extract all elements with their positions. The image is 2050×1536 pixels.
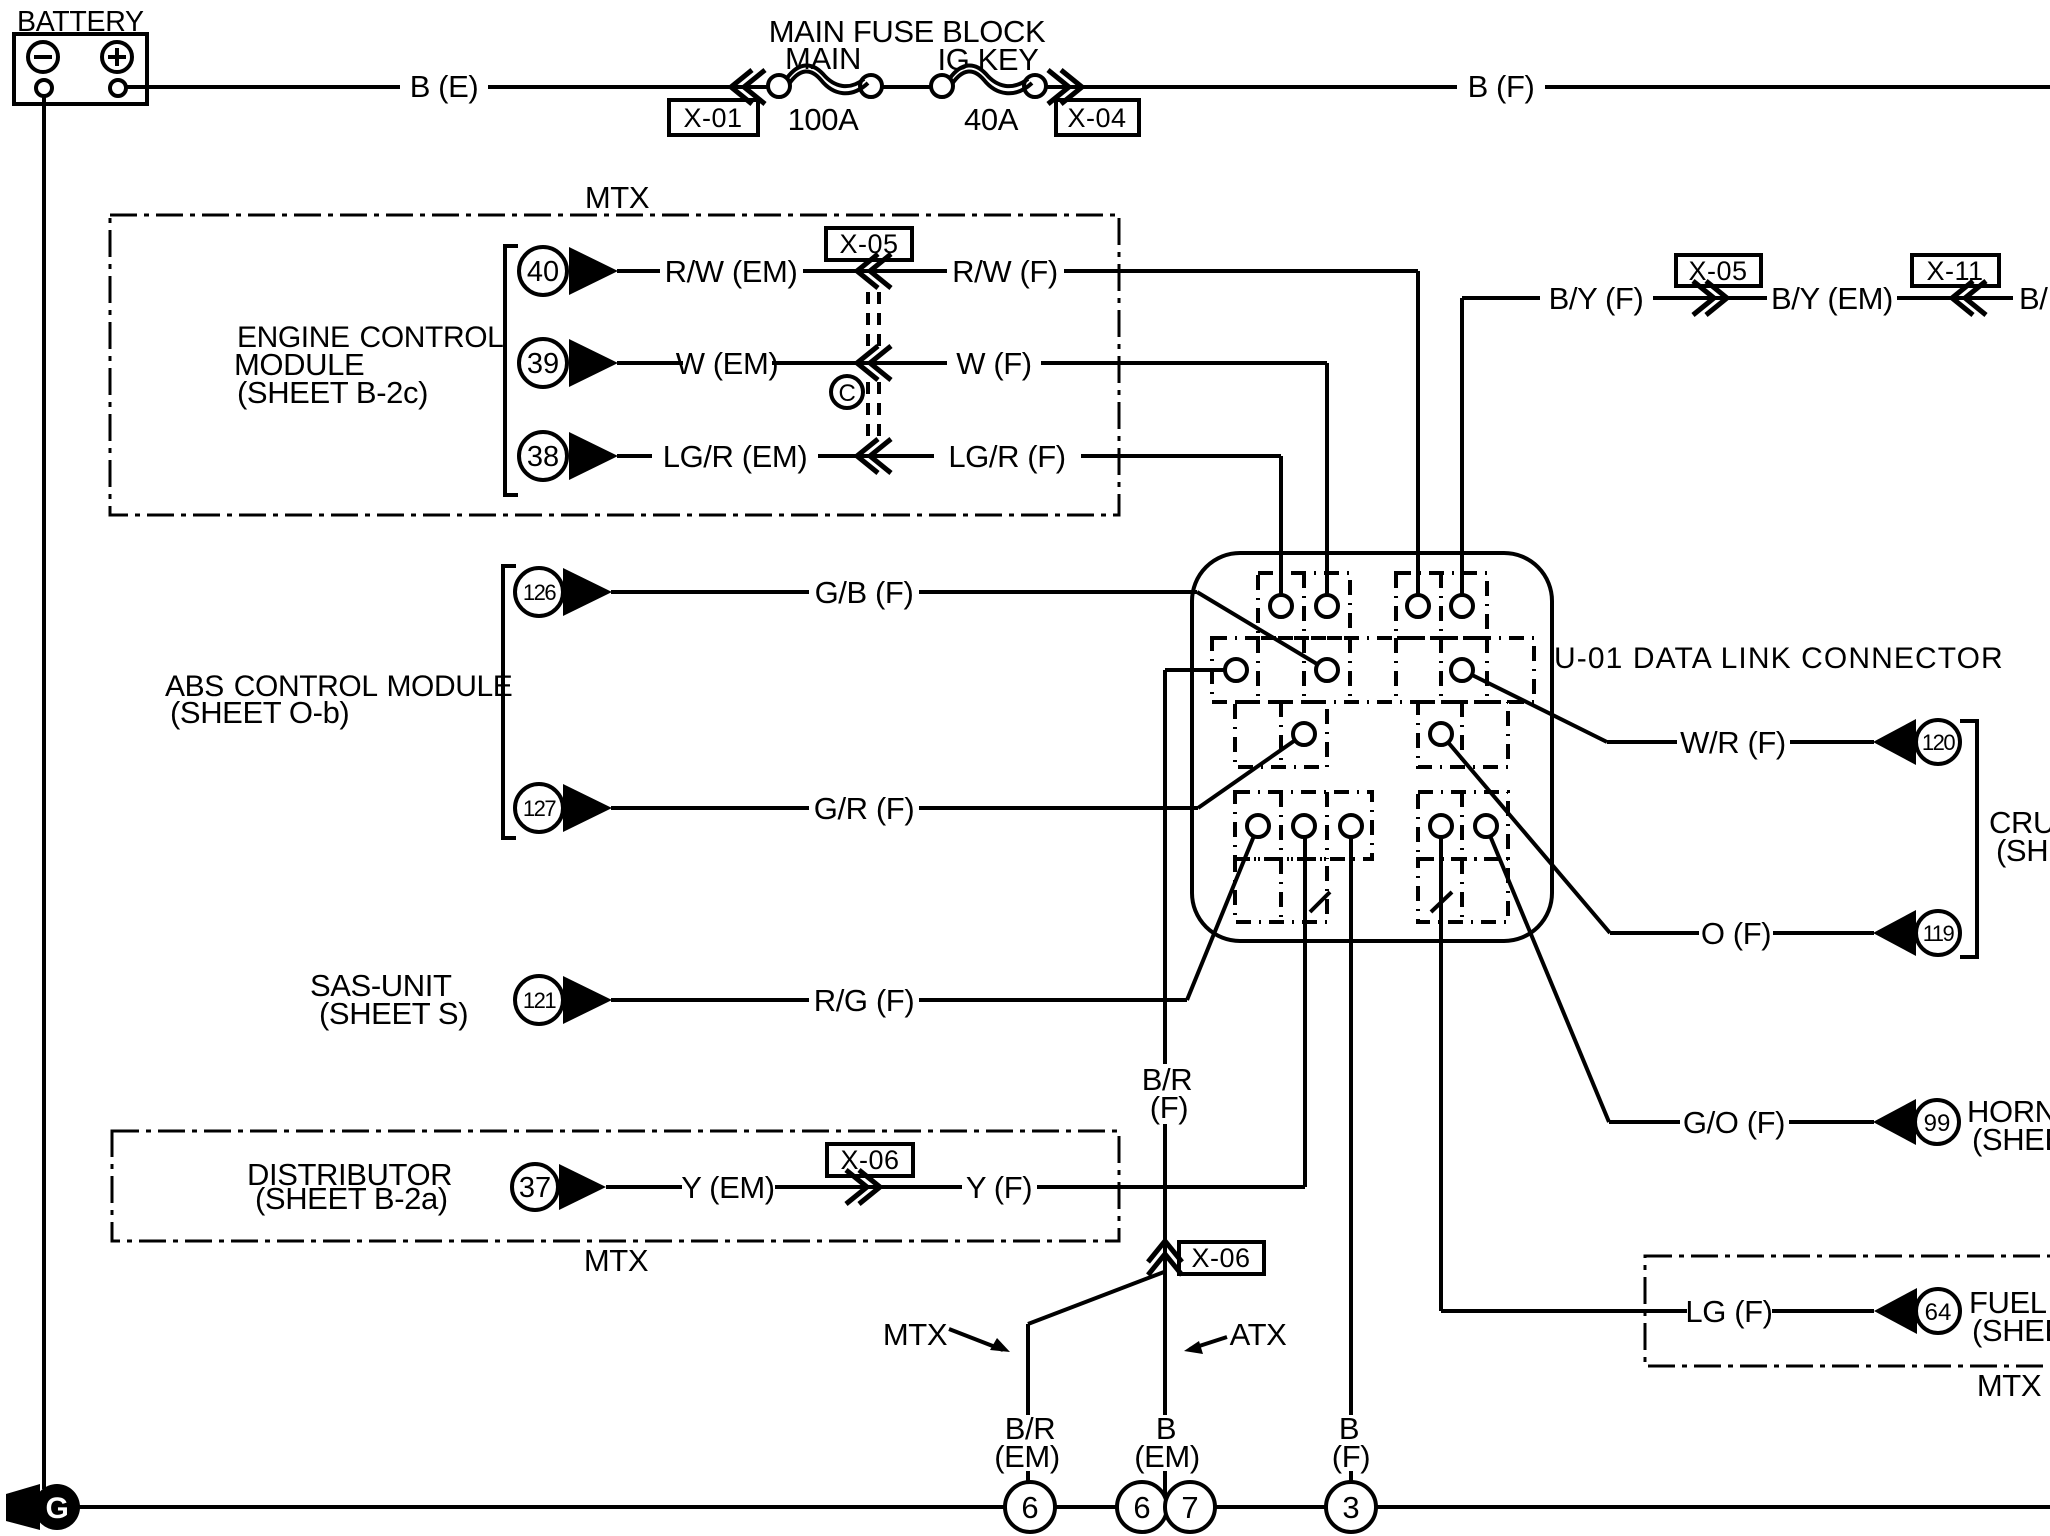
distributor label [247,1157,452,1216]
svg-text:B/: B/ [2019,281,2048,316]
svg-text:121: 121 [523,988,556,1013]
wire W [617,346,1327,598]
fuse IG KEY 40A [931,42,1046,137]
svg-text:120: 120 [1922,730,1955,755]
svg-text:G/O (F): G/O (F) [1683,1105,1785,1140]
cruise pin 119 [1873,910,1960,956]
cruise bracket [1960,721,1977,957]
wire G/B [611,575,1327,670]
cruise label [1989,805,2050,868]
connector pins row 3 [1293,723,1452,745]
connector cavity outline row 4 right [1418,792,1508,859]
svg-text:LG (F): LG (F) [1685,1294,1772,1329]
ABS pin 126 [515,568,612,616]
svg-text:(EM): (EM) [994,1439,1060,1474]
svg-text:G/B (F): G/B (F) [815,575,914,610]
svg-text:119: 119 [1923,921,1955,946]
svg-text:Y (F): Y (F) [966,1170,1032,1205]
svg-text:127: 127 [523,796,556,821]
engine control module label [234,321,503,410]
connector cavity outline bottom tab right [1418,859,1508,922]
svg-text:X-01: X-01 [683,103,742,133]
svg-text:B/Y (F): B/Y (F) [1549,281,1644,316]
svg-text:X-11: X-11 [1926,256,1983,286]
wire B/R(F) from pin to bottom [1134,670,1225,1497]
connector cavity outline top-left [1258,573,1350,638]
svg-text:(F): (F) [1332,1439,1370,1474]
connector pins top row [1270,595,1473,617]
connector cavity outline row 3 right [1418,702,1508,767]
svg-text:(SHE: (SHE [1996,833,2050,868]
MTX harness box (engine control module) [110,180,1119,515]
svg-text:(SHEET B-2c): (SHEET B-2c) [237,375,428,410]
wire LG/R [617,439,1281,598]
svg-text:LG/R (EM): LG/R (EM) [663,439,808,474]
connector cavity outline row 2 [1212,638,1534,702]
ECM pin 38 [519,432,618,480]
connector cavity outline bottom tab left [1235,859,1327,922]
svg-text:100A: 100A [788,102,860,137]
ABS control module label [165,670,512,730]
svg-text:126: 126 [523,580,556,605]
fuse MAIN 100A [768,41,882,137]
connector X-05 right [1676,255,1761,315]
ground joint 3 [1326,1482,1376,1532]
connector X-06 (distributor) [827,1144,913,1204]
cruise pin 120 [1873,719,1960,765]
connector pins row 2 [1225,659,1473,681]
wire R/W [617,254,1418,598]
U-01 data link connector body [1192,553,1552,941]
wire B(F) [1046,69,2050,104]
svg-text:6: 6 [1133,1490,1150,1525]
svg-text:U-01 DATA LINK CONNECTOR: U-01 DATA LINK CONNECTOR [1554,642,2004,675]
wire B(E) [126,69,768,104]
svg-text:40A: 40A [964,102,1019,137]
connector cavity outline top-right [1396,573,1487,638]
svg-text:MTX: MTX [584,1243,649,1278]
svg-text:6: 6 [1021,1490,1038,1525]
ECM pin 39 [519,339,618,387]
svg-text:(SHEET B-2a): (SHEET B-2a) [255,1181,448,1216]
svg-text:Y (EM): Y (EM) [681,1170,774,1205]
svg-text:B (F): B (F) [1468,69,1535,104]
MTX harness box (distributor) [112,1131,1119,1278]
connector cavity outline row 3 left [1235,702,1327,767]
svg-text:(SHEE: (SHEE [1972,1122,2050,1157]
wire O to cruise [1441,734,1874,951]
svg-text:B/Y (EM): B/Y (EM) [1771,281,1893,316]
svg-text:(SHEE: (SHEE [1972,1313,2050,1348]
wire between fuses [882,85,931,89]
svg-text:W (EM): W (EM) [676,346,779,381]
horn label [1967,1094,2050,1157]
svg-text:O (F): O (F) [1701,916,1771,951]
connector pins row 4 [1247,815,1497,837]
svg-text:ATX: ATX [1230,1317,1288,1352]
MTX harness box (fuel, bottom right) [1645,1256,2050,1403]
MTX arrow label [883,1317,1010,1352]
svg-text:R/W (F): R/W (F) [952,254,1058,289]
SAS pin 121 [515,976,612,1024]
ECM pin 40 [519,247,618,295]
svg-text:(F): (F) [1150,1090,1188,1125]
svg-text:MTX: MTX [883,1317,948,1352]
svg-text:W (F): W (F) [956,346,1031,381]
svg-text:99: 99 [1924,1110,1951,1137]
svg-text:(SHEET O-b): (SHEET O-b) [170,695,349,730]
ground G [6,1484,80,1530]
svg-text:B (E): B (E) [410,69,479,104]
ground joint 6 (B/R EM) [1005,1482,1055,1532]
connector X-05 [826,228,912,473]
svg-text:39: 39 [527,348,559,380]
svg-text:64: 64 [1925,1299,1952,1326]
connector X-11 [1912,255,1999,315]
wire MTX branch B/R(EM) [994,1272,1164,1484]
svg-text:(SHEET S): (SHEET S) [319,996,468,1031]
ABS pin 127 [515,784,612,832]
connector cavity outline row 4 left [1235,792,1372,859]
wire W/R to cruise [1462,670,1874,760]
svg-text:7: 7 [1181,1490,1198,1525]
distributor pin 37 [512,1164,606,1210]
wire G/O to horn [1486,826,1874,1140]
svg-text:X-06: X-06 [1191,1243,1250,1273]
svg-text:MTX: MTX [1977,1368,2042,1403]
svg-text:G: G [46,1492,69,1525]
wire Y [606,826,1305,1205]
svg-text:IG KEY: IG KEY [938,42,1039,77]
fuel label [1969,1285,2050,1348]
connector X-06 (bottom) [1148,1241,1264,1275]
svg-text:37: 37 [519,1172,551,1204]
svg-text:MTX: MTX [585,180,650,215]
SAS-unit label [310,968,468,1031]
ground joint 6 (B EM) [1117,1482,1167,1532]
wire battery negative to ground [42,96,46,1489]
svg-text:(EM): (EM) [1134,1439,1200,1474]
fuel pin 64 [1874,1288,1960,1334]
wire B/Y top right [1462,281,2048,598]
connector X-04 [1048,70,1139,135]
svg-text:W/R (F): W/R (F) [1680,725,1786,760]
ATX arrow label [1184,1317,1287,1354]
wire LG to fuel [1441,826,1874,1329]
connector X-01 [669,70,765,135]
svg-text:LG/R (F): LG/R (F) [948,439,1065,474]
svg-text:G/R (F): G/R (F) [814,791,915,826]
svg-text:R/W (EM): R/W (EM) [665,254,798,289]
ECM pin bracket [505,246,518,495]
cavity chamfer marks [1310,892,1330,912]
ABS pin bracket [503,566,516,838]
horn pin 99 [1873,1099,1959,1145]
wire R/G [611,826,1258,1018]
wire B(F) from pin 3 to bottom [1332,826,1370,1484]
svg-text:C: C [839,380,856,407]
wire G/R [611,734,1304,826]
svg-text:40: 40 [527,256,559,288]
ground joint 7 [1165,1482,1215,1532]
svg-text:3: 3 [1342,1490,1359,1525]
battery [14,6,147,104]
bottom ground bus wire [78,1505,2050,1509]
svg-text:38: 38 [527,441,559,473]
svg-text:R/G (F): R/G (F) [814,983,915,1018]
svg-text:X-04: X-04 [1067,103,1126,133]
